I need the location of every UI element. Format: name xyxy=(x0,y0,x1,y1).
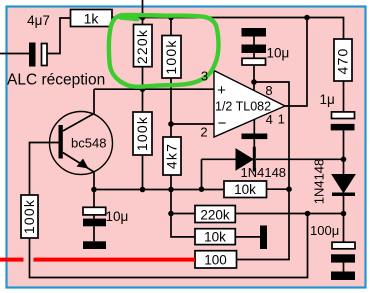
wire node A row to op-amp pin 3 xyxy=(94,88,214,90)
svg-text:10μ: 10μ xyxy=(106,209,129,224)
svg-text:+: + xyxy=(217,82,226,99)
capacitor C4 black plate xyxy=(331,254,355,262)
svg-text:ALC réception: ALC réception xyxy=(7,72,105,89)
svg-text:100: 100 xyxy=(204,253,227,268)
wire pin4 bar to diode cathode xyxy=(253,139,255,147)
wire 4k7 bottom to emitter row xyxy=(170,175,172,190)
diode D1 1N4148 triangle xyxy=(236,149,253,170)
wire node to 100u cap xyxy=(343,214,345,243)
wire op-amp output feedback riser xyxy=(285,18,307,107)
capacitor C2 black plate xyxy=(242,45,267,54)
wire C1 to R1 1k xyxy=(48,18,71,54)
capacitor C5 black plate xyxy=(83,219,106,227)
capacitor C5 10u bottom white plate xyxy=(83,207,106,215)
capacitor C1 4u7 black plate xyxy=(29,43,36,67)
node emitter row 4k7 xyxy=(168,187,174,193)
capacitor C4 100u white plate xyxy=(332,242,355,249)
annotation green marker ring xyxy=(109,15,219,87)
node A 220k-100k / pin3 row xyxy=(140,86,146,92)
highlight red wire segment xyxy=(0,258,24,262)
node emitter row diode branch xyxy=(199,186,205,192)
resistor R4 100k vertical xyxy=(133,112,152,155)
wire vertical diode cathode to 220k(2) row node xyxy=(343,196,345,214)
svg-text:1N4148: 1N4148 xyxy=(312,159,327,205)
wire pin8 node to 100 resistor right xyxy=(237,82,290,260)
resistor R7 470 vertical xyxy=(334,39,352,81)
node 220k2 row left xyxy=(168,211,174,217)
svg-text:1N4148: 1N4148 xyxy=(241,165,287,180)
wire top stub to off-page xyxy=(142,0,144,24)
highlight red wire segment 2 xyxy=(34,258,196,262)
wire 100k(2) bottom to 4k7 top xyxy=(170,78,172,137)
wire 1u cap to diode row xyxy=(343,131,345,160)
wire emitter down from transistor xyxy=(93,172,95,190)
transistor Q1 emitter diagonal xyxy=(63,153,94,173)
wire inverting input row to op-amp pin 2 xyxy=(171,123,214,125)
diode D2 1N4148 vertical triangle xyxy=(332,175,355,193)
svg-text:100k: 100k xyxy=(21,199,37,234)
capacitor C5 link2 xyxy=(93,226,95,241)
wire 470 bottom to 1u cap xyxy=(343,81,345,112)
svg-text:4μ7: 4μ7 xyxy=(27,13,50,28)
svg-text:220k: 220k xyxy=(200,207,230,222)
wire 100k(3) bottom to emitter row xyxy=(142,155,144,190)
annotation green marker start knot xyxy=(121,18,138,20)
transistor Q1 emitter arrow xyxy=(77,159,89,169)
wire 100k(4) top to transistor base xyxy=(30,143,59,196)
wire op-amp pin 4 stub xyxy=(253,120,255,134)
wire diode branch riser xyxy=(201,159,203,189)
svg-text:100k: 100k xyxy=(134,116,150,151)
resistor R3 100k vertical xyxy=(162,36,181,79)
svg-text:4: 4 xyxy=(266,112,273,127)
resistor R5 4k7 vertical xyxy=(163,137,181,175)
svg-text:−: − xyxy=(218,115,227,132)
wire 220k(2) row right section xyxy=(235,213,343,215)
wire bracket to 10k(2) left xyxy=(171,214,195,237)
wire 10k(1) right to node xyxy=(267,188,290,190)
wire op-amp pin 8 stub xyxy=(253,65,255,90)
svg-text:3: 3 xyxy=(201,69,208,84)
op-amp U1 1/2 TL082 triangle xyxy=(214,71,285,138)
capacitor C2 link2 xyxy=(253,53,255,58)
wire 220k bottom to 100k top through node xyxy=(142,67,144,112)
resistor R10 10k lower xyxy=(195,229,235,245)
capacitor C4 ground bar xyxy=(331,272,355,281)
capacitor C4 link xyxy=(343,263,345,272)
wire 10k(2) right to polarity bar xyxy=(235,236,260,238)
svg-text:1: 1 xyxy=(278,112,285,127)
op-amp pin4 rail bar xyxy=(242,134,268,140)
node top rail / feedback xyxy=(304,15,310,21)
node top rail / 220k xyxy=(140,15,146,21)
wire to 220k(2) left xyxy=(171,213,195,215)
wire emitter row cap drop xyxy=(93,190,95,208)
resistor R11 100 xyxy=(195,251,237,268)
wire diode cathode row to right column xyxy=(256,158,344,160)
diode D1 cathode bar xyxy=(253,147,256,172)
svg-text:2: 2 xyxy=(200,125,207,140)
node pin2 row xyxy=(168,121,174,127)
node 220k2 row right xyxy=(341,211,347,217)
node 220k2 row bottom rail xyxy=(305,211,311,217)
svg-text:bc548: bc548 xyxy=(71,136,106,151)
svg-text:10k: 10k xyxy=(234,182,256,197)
resistor R1 1k xyxy=(71,10,113,27)
wire top rail to 100k(2) top xyxy=(170,18,172,36)
node 10k right xyxy=(286,186,292,192)
resistor R2 220k vertical xyxy=(134,25,153,67)
svg-text:1/2 TL082: 1/2 TL082 xyxy=(215,100,271,114)
wire input from left edge to C1 xyxy=(0,53,29,55)
capacitor C3 1u black plate xyxy=(331,124,355,130)
node emitter xyxy=(91,187,97,193)
diode D2 cathode bar xyxy=(332,193,355,197)
node top rail / 100k xyxy=(168,15,174,21)
capacitor C2 white plate xyxy=(242,58,266,65)
wire top rail from R1 to 470 column xyxy=(112,18,344,40)
capacitor C1 4u7 white plate xyxy=(42,44,48,66)
capacitor C5 link xyxy=(93,215,95,219)
wire emitter row xyxy=(94,189,224,191)
node pin8 xyxy=(251,79,257,85)
polarity bar at 10k(2) xyxy=(260,226,267,250)
transistor Q1 collector diagonal xyxy=(63,114,94,132)
wire diode row node to vertical diode xyxy=(343,159,345,174)
wire collector riser xyxy=(93,89,95,113)
node emitter row 100k xyxy=(140,187,146,193)
wire bottom rail xyxy=(30,214,308,278)
svg-text:10k: 10k xyxy=(204,230,226,245)
svg-text:1μ: 1μ xyxy=(320,92,335,107)
svg-text:4k7: 4k7 xyxy=(164,143,180,169)
svg-text:220k: 220k xyxy=(134,29,150,64)
svg-text:100μ: 100μ xyxy=(310,223,339,238)
resistor R9 220k lower xyxy=(195,206,235,223)
wire 4k7 node down to 220k(2) row xyxy=(170,190,172,214)
capacitor C3 1u white plate xyxy=(332,112,355,119)
transistor Q1 bc548 circle xyxy=(50,112,113,175)
svg-text:8: 8 xyxy=(265,83,272,98)
capacitor C5 ground bar xyxy=(83,241,106,249)
capacitor C2 link xyxy=(253,37,255,45)
resistor R6 100k vertical far left xyxy=(21,195,38,238)
svg-text:470: 470 xyxy=(335,48,351,75)
capacitor C2 10u top rail bar xyxy=(242,28,267,37)
svg-text:100k: 100k xyxy=(163,39,179,74)
node diode row right xyxy=(341,157,347,163)
wire diode anode xyxy=(202,158,237,160)
resistor R8 10k upper xyxy=(224,181,267,198)
svg-text:1k: 1k xyxy=(84,11,100,27)
svg-text:10μ: 10μ xyxy=(267,46,290,61)
transistor Q1 base bar xyxy=(59,125,63,159)
